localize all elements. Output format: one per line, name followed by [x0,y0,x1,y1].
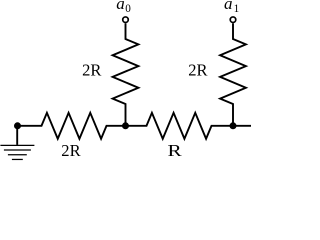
svg-text:a: a [224,0,233,13]
resistor R (bottom-right horizontal) with wire from middle node to right edge [126,113,252,139]
terminal a0 open circle [123,17,129,23]
svg-text:2R: 2R [61,141,81,160]
svg-text:2R: 2R [82,60,102,79]
terminal a1 open circle [230,17,236,23]
resistor 2R (right vertical) with wire from terminal a1 down to right node [220,23,246,126]
wire ground stem [16,126,18,145]
label a1 [224,0,239,15]
resistor 2R (left vertical) with wire from terminal a0 down to middle node [113,23,139,126]
svg-text:0: 0 [125,3,131,15]
ground [0,145,34,159]
svg-text:R: R [168,141,183,160]
svg-text:a: a [116,0,125,13]
node junction middle [122,122,129,129]
svg-text:2R: 2R [188,60,208,79]
label a0 [116,0,131,15]
resistor 2R (bottom-left horizontal) with wire from ground node to middle node [17,113,125,139]
svg-text:1: 1 [234,3,240,15]
node junction left (ground node) [14,122,21,129]
node junction right [230,122,237,129]
